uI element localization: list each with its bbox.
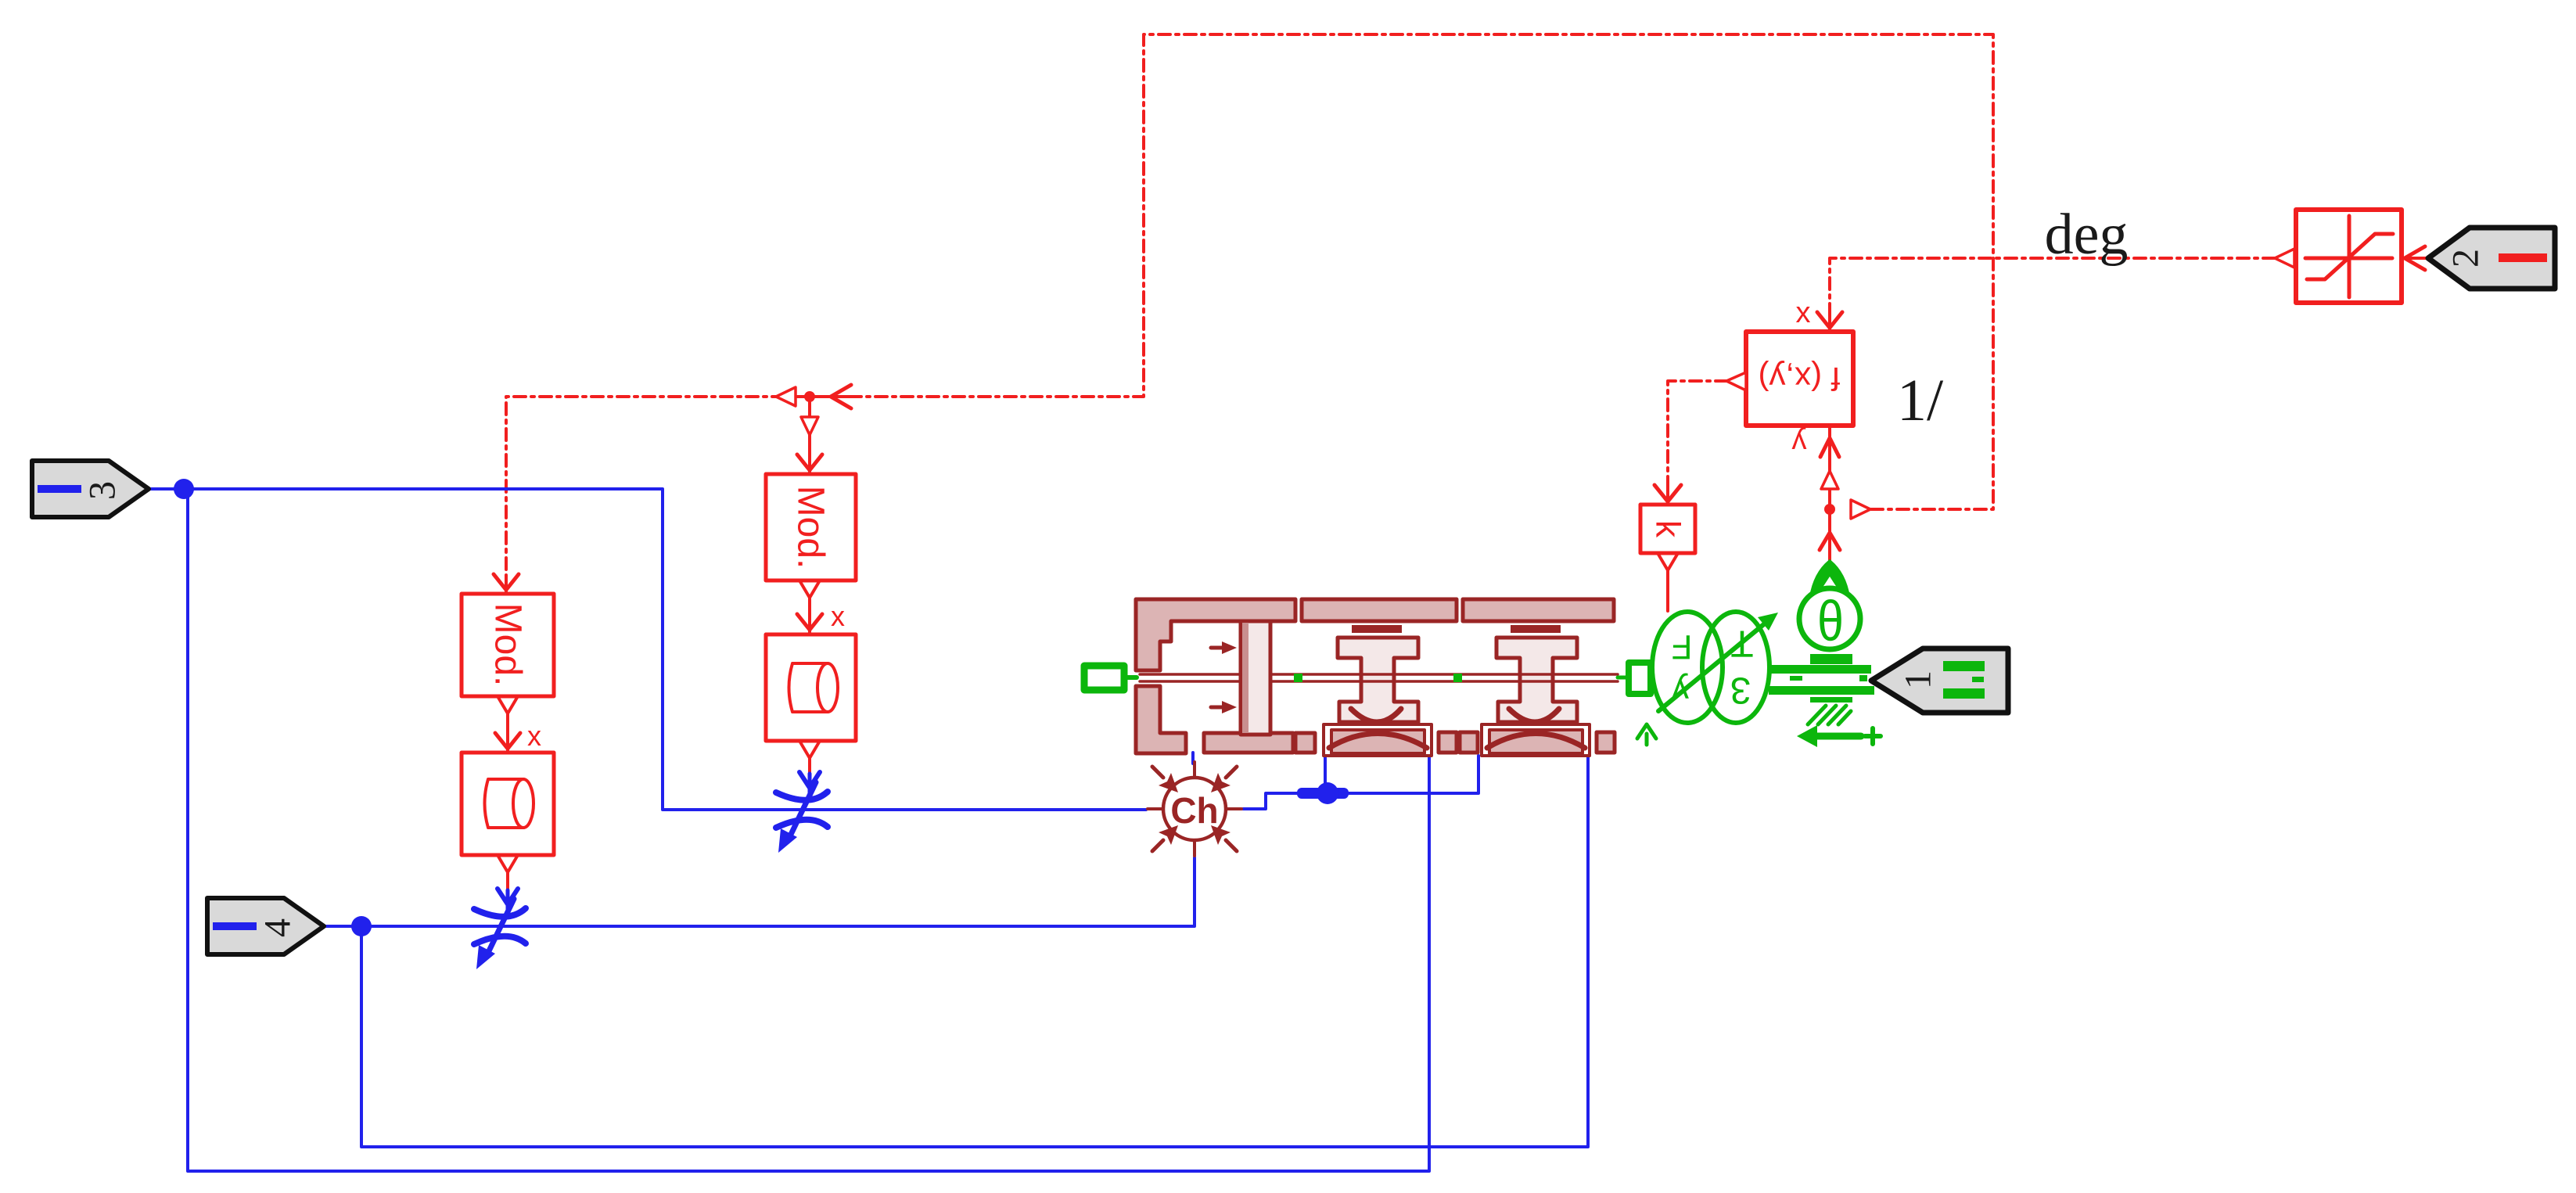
node C: junction dot above theta	[1824, 504, 1835, 515]
node: junction dot at port3	[174, 479, 194, 499]
svg-text:f (x,y): f (x,y)	[1759, 361, 1841, 397]
component output shaft lower bar	[1769, 686, 1874, 695]
component port square C	[1597, 732, 1615, 753]
component Ch chamber	[1163, 778, 1226, 840]
wire: chevron arrowhead into disc1	[797, 614, 822, 630]
wire: k output line to transformer	[1666, 570, 1669, 611]
wire: branch down to Mod1 line	[808, 435, 811, 462]
wire: cylinder chamber stub to Ch top	[1191, 753, 1195, 764]
block Mod1	[766, 474, 856, 580]
wire: chevron arrowhead into Mod1	[797, 455, 822, 470]
block disc2 (signal converter)	[462, 753, 554, 855]
svg-text:deg: deg	[2045, 203, 2129, 267]
wire: hollow left triangle out of saturation	[2275, 249, 2294, 268]
wire: chevron up arrow below junction	[1820, 533, 1840, 550]
component poppet 2: seat arcs	[1487, 709, 1585, 748]
svg-text:y: y	[1792, 426, 1807, 459]
ground hatch under shaft	[1810, 697, 1852, 703]
arrow: chamber flow arrow upper	[1211, 646, 1222, 650]
component poppet 1: seat box outer	[1324, 724, 1432, 756]
block Mod2	[462, 594, 554, 696]
wire: f(x,y) y-input from theta sensor	[1828, 509, 1831, 560]
wire: port3 bottom loop to chamber 1	[188, 489, 1429, 1171]
block saturation	[2296, 210, 2402, 303]
node A: arrow out of theta junction (hollow right triangle)	[1851, 500, 1870, 519]
wire: top feedback loop dash-dot (junction to Mod blocks)	[506, 34, 1993, 577]
wire: chevron arrowhead into f(x,y) top	[1817, 312, 1842, 328]
component variable lever (transformer) ellipse 2	[1702, 612, 1769, 723]
wire: chevron arrowhead into disc2	[495, 733, 520, 749]
component port square B	[1460, 732, 1478, 753]
node: junction dot at port4	[351, 916, 372, 936]
svg-text:Ch: Ch	[1170, 790, 1218, 831]
arrow: chamber flow arrow lower	[1211, 706, 1222, 710]
component cylinder: lower left wall	[1136, 686, 1186, 753]
component: plugged node (thick bar) on pilot line	[1297, 788, 1349, 799]
wire: disc2 output chevron (control to throttle2)	[498, 855, 518, 872]
wire: arrow hollow left triangle on loop line	[776, 387, 796, 406]
svg-text:1/: 1/	[1897, 368, 1944, 433]
arrow: variable ratio diagonal	[1658, 623, 1765, 711]
svg-text:θ: θ	[1817, 589, 1844, 652]
wire: dash-dot from f output down to k gain	[1668, 381, 1727, 483]
component poppet 1: I-beam	[1338, 638, 1418, 722]
component poppet 2: I-beam	[1496, 638, 1577, 722]
port tag 1	[1871, 649, 2008, 713]
component servo-valve body: top bar segment 2	[1302, 599, 1457, 621]
component rod link port (right green)	[1618, 676, 1627, 680]
component spool rod segments	[1140, 674, 1618, 681]
svg-text:2: 2	[2445, 249, 2487, 268]
svg-text:Mod.: Mod.	[487, 603, 529, 687]
wire: Mod1 output chevron	[799, 580, 820, 598]
component shaft center dash	[1790, 676, 1802, 681]
wire: chevron arrowhead into Mod2	[494, 574, 519, 590]
component poppet 1: seat box inner	[1331, 730, 1425, 753]
arrow: lever lower chevron	[1637, 724, 1656, 738]
block U1 f(x,y) function (rotated 180)	[1746, 332, 1853, 426]
component variable lever (transformer) ellipse 1	[1652, 612, 1723, 723]
wire: disc1 output chevron (control to throttle1)	[799, 741, 820, 758]
node B: junction dot on loop line above Mod1	[804, 391, 815, 402]
svg-text:4: 4	[257, 918, 299, 937]
wire: stub up to chamber port	[1324, 756, 1327, 793]
component poppet 2: seat box outer	[1482, 724, 1590, 756]
node: rod green link 1	[1294, 674, 1302, 682]
component sensor base bar	[1810, 654, 1852, 664]
component poppet 2: top mark	[1511, 625, 1561, 633]
port tag 2	[2428, 228, 2555, 289]
svg-text:3: 3	[82, 481, 124, 500]
component theta angle sensor circle	[1799, 588, 1860, 649]
component throttle2 (variable orifice)	[474, 889, 526, 958]
component throttle1 (variable orifice)	[776, 772, 828, 841]
svg-text:F: F	[1672, 628, 1693, 667]
wire: solid chevron arrowhead pointing left on loop line	[831, 385, 851, 408]
wire: hollow up triangle above junction	[1828, 489, 1831, 509]
component cylinder: top bar and upper left wall	[1136, 599, 1295, 670]
wire: chevron up into f(x,y) bottom	[1820, 438, 1839, 457]
component poppet 1: seat arcs	[1329, 709, 1427, 748]
wire: Ch right to pilot chambers	[1243, 756, 1478, 809]
node: rod green link 2	[1453, 674, 1462, 682]
svg-text:1: 1	[1898, 670, 1939, 689]
wire: Mod2 output chevron	[498, 696, 518, 713]
svg-text:x: x	[1796, 296, 1811, 329]
wire: solid segment at junction	[796, 395, 854, 398]
arrows into Ch	[1152, 767, 1163, 778]
wire: port4 to Ch bottom	[324, 857, 1195, 926]
port tag 3	[32, 461, 149, 517]
node: junction dot on pilot line	[1317, 782, 1338, 804]
svg-text:3: 3	[1730, 670, 1751, 711]
component rod end port (left green clevis)	[1084, 666, 1124, 690]
component servo-valve body: top bar segment 3	[1463, 599, 1614, 621]
block disc1 (signal converter)	[766, 634, 856, 741]
svg-text:k: k	[1649, 520, 1687, 538]
block k gain (rotated 180)	[1640, 505, 1695, 553]
component theta angle sensor dome	[1810, 562, 1849, 606]
component poppet 1: top mark	[1352, 625, 1402, 633]
wire: k output chevron	[1658, 553, 1678, 570]
svg-text:x: x	[831, 600, 845, 632]
wire: f(x,y) left output hollow triangle	[1726, 372, 1746, 390]
arrow: positive direction with plus	[1813, 733, 1861, 740]
wire: deg dash-dot line from saturation to f(x,y) x-input	[1830, 258, 2275, 311]
component port square A	[1439, 732, 1457, 753]
wire: from port 2 into saturation with chevron	[2403, 257, 2428, 260]
component output shaft upper bar	[1769, 665, 1871, 674]
svg-text:x: x	[527, 720, 541, 752]
wire: branch down to Mod1, hollow triangle	[801, 417, 818, 435]
port tag 4	[207, 898, 324, 954]
svg-text:Mod.: Mod.	[790, 486, 832, 570]
wire: port3 to Ch left (hydraulic)	[149, 489, 1146, 810]
wire: port4 bottom loop to chamber 2	[361, 756, 1588, 1147]
component cylinder: bottom bar end block	[1295, 733, 1315, 753]
component cylinder: bottom bar	[1204, 733, 1293, 753]
component piston (spool)	[1241, 621, 1270, 735]
component poppet 2: seat box inner	[1489, 730, 1583, 753]
wire: chevron arrowhead into k	[1654, 485, 1681, 501]
